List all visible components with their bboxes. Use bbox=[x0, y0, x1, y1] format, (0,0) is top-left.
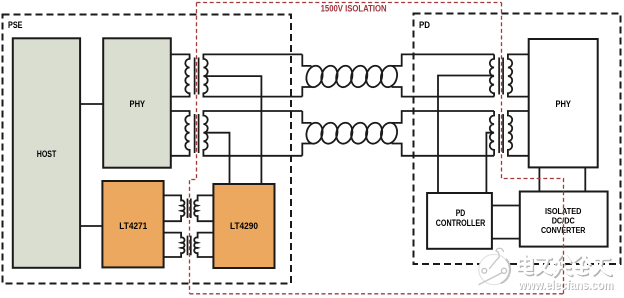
PSE label bbox=[8, 20, 23, 31]
gate transformer TB core bbox=[188, 236, 191, 256]
block ISOLATED DC/DC CONVERTER bbox=[520, 192, 608, 247]
gate transformer TB secondary winding bbox=[194, 233, 213, 257]
transformer T2 core bbox=[195, 114, 199, 153]
block LT4271 bbox=[102, 181, 163, 267]
gate transformer TA secondary winding bbox=[194, 195, 213, 221]
PSE boundary dashed box bbox=[3, 15, 292, 284]
watermark logo circle bbox=[479, 248, 510, 284]
isolation label 1500V ISOLATION bbox=[321, 4, 387, 15]
transformer T3 primary winding bbox=[490, 54, 494, 96]
PD boundary dashed box bbox=[414, 14, 621, 265]
wire T2 center tap to LT4290 bbox=[204, 133, 230, 184]
svg-text:PD: PD bbox=[456, 208, 466, 218]
wire T1 center tap to LT4290 bbox=[204, 76, 262, 184]
PD label bbox=[419, 20, 430, 31]
svg-text:LT4271: LT4271 bbox=[119, 221, 148, 232]
svg-text:PSE: PSE bbox=[8, 20, 23, 31]
wire T3 center tap to PD controller bbox=[438, 76, 494, 194]
svg-text:www.elecfans.com: www.elecfans.com bbox=[517, 278, 613, 292]
twisted pair cable 2 lead-in steps bbox=[302, 111, 494, 156]
block LT4290 bbox=[213, 184, 274, 268]
watermark chinese characters body bbox=[519, 256, 611, 276]
isolation boundary red dashed right bbox=[502, 3, 564, 294]
svg-text:LT4290: LT4290 bbox=[230, 221, 258, 232]
twisted pair cable 1 loops bbox=[304, 64, 399, 89]
watermark url text shadow bbox=[518, 279, 614, 293]
transformer T4 secondary winding bbox=[508, 111, 529, 156]
isolation boundary red dashed bottom bbox=[190, 293, 564, 295]
twisted pair cable 1 lead-in steps bbox=[302, 54, 494, 96]
wire PHY(PD) to DC/DC left bbox=[538, 167, 540, 191]
block PHY (PSE side) bbox=[103, 38, 171, 167]
isolation boundary red dashed top bbox=[197, 2, 502, 4]
transformer T3 secondary winding bbox=[508, 54, 529, 96]
svg-text:PHY: PHY bbox=[130, 99, 146, 110]
block PD CONTROLLER bbox=[427, 193, 492, 249]
transformer T1 secondary winding bbox=[203, 54, 302, 96]
wire PD controller to DC/DC lower bbox=[492, 238, 520, 240]
gate transformer TA primary winding bbox=[164, 195, 185, 221]
transformer T2 secondary winding bbox=[203, 111, 302, 156]
transformer T4 core bbox=[499, 114, 503, 153]
svg-text:1500V ISOLATION: 1500V ISOLATION bbox=[321, 4, 387, 15]
transformer T4 primary winding bbox=[490, 111, 494, 156]
wire HOST to PHY bbox=[80, 103, 103, 105]
gate transformer TB primary winding bbox=[164, 233, 185, 257]
svg-text:CONTROLLER: CONTROLLER bbox=[436, 218, 486, 228]
transformer T3 core bbox=[499, 58, 503, 95]
watermark url text body bbox=[517, 278, 613, 292]
block PHY (PD side) bbox=[529, 39, 598, 167]
twisted pair cable 2 loops bbox=[304, 121, 399, 145]
svg-text:PHY: PHY bbox=[555, 99, 571, 110]
watermark chinese characters shadow bbox=[520, 257, 612, 277]
isolation boundary red dashed left bbox=[190, 3, 197, 294]
transformer T1 primary winding bbox=[171, 54, 190, 96]
wire PHY(PD) to DC/DC right bbox=[584, 167, 586, 191]
wire HOST to LT4271 bbox=[80, 225, 102, 227]
wire T4 center tap to PD controller bbox=[486, 133, 493, 193]
block HOST bbox=[13, 38, 80, 267]
svg-text:HOST: HOST bbox=[37, 149, 57, 160]
gate transformer TA core bbox=[188, 199, 191, 219]
transformer T1 core bbox=[195, 58, 199, 95]
wire PD controller to DC/DC upper bbox=[492, 205, 520, 207]
svg-text:PD: PD bbox=[419, 20, 430, 31]
transformer T2 primary winding bbox=[171, 111, 190, 156]
